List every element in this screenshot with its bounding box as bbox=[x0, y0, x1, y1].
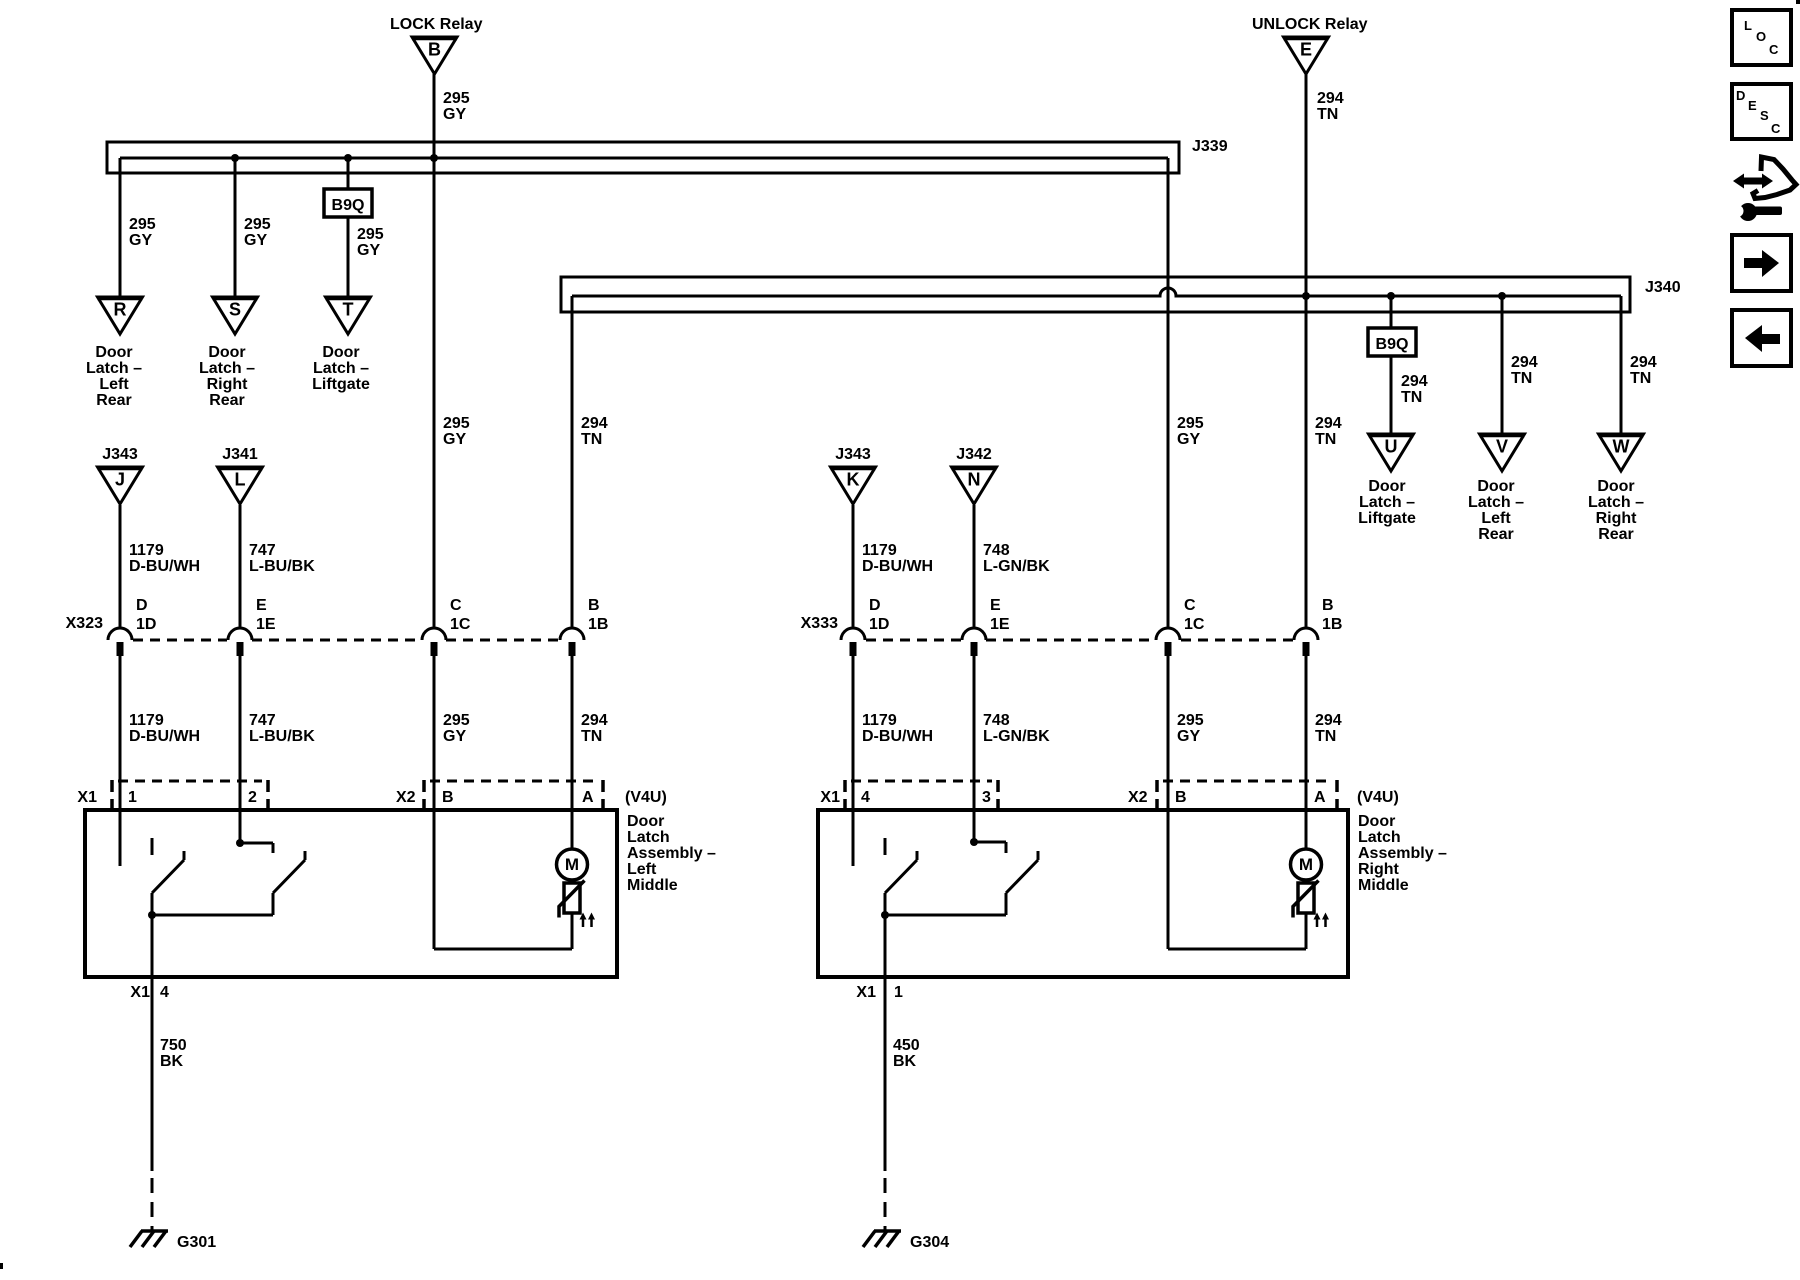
svg-text:Rear: Rear bbox=[96, 392, 132, 409]
svg-text:1D: 1D bbox=[869, 616, 889, 633]
svg-text:X323: X323 bbox=[66, 615, 103, 632]
svg-text:X2: X2 bbox=[1128, 789, 1148, 806]
svg-text:B: B bbox=[1175, 789, 1187, 806]
svg-text:A: A bbox=[582, 789, 594, 806]
svg-text:D: D bbox=[136, 597, 148, 614]
svg-text:U: U bbox=[1385, 437, 1398, 457]
svg-text:Right: Right bbox=[207, 376, 249, 393]
svg-text:Assembly –: Assembly – bbox=[627, 845, 716, 862]
svg-text:B: B bbox=[428, 40, 441, 60]
svg-text:GY: GY bbox=[244, 232, 267, 249]
svg-text:C: C bbox=[1184, 597, 1196, 614]
svg-text:294: 294 bbox=[1401, 373, 1428, 390]
svg-text:X1: X1 bbox=[820, 789, 840, 806]
svg-text:Door: Door bbox=[322, 344, 359, 361]
svg-text:Latch: Latch bbox=[627, 829, 670, 846]
svg-text:M: M bbox=[565, 855, 579, 874]
svg-text:GY: GY bbox=[443, 106, 466, 123]
svg-text:TN: TN bbox=[1317, 106, 1338, 123]
svg-text:LOCK Relay: LOCK Relay bbox=[390, 16, 483, 33]
svg-text:Door: Door bbox=[208, 344, 245, 361]
svg-text:1D: 1D bbox=[136, 616, 156, 633]
svg-text:L-BU/BK: L-BU/BK bbox=[249, 558, 315, 575]
svg-text:3: 3 bbox=[982, 789, 991, 806]
svg-text:V: V bbox=[1496, 437, 1508, 457]
svg-text:Rear: Rear bbox=[1598, 526, 1634, 543]
svg-text:295: 295 bbox=[129, 216, 156, 233]
svg-text:Left: Left bbox=[627, 861, 657, 878]
svg-text:L-GN/BK: L-GN/BK bbox=[983, 558, 1050, 575]
svg-text:TN: TN bbox=[1315, 728, 1336, 745]
svg-text:Latch –: Latch – bbox=[86, 360, 142, 377]
svg-text:(V4U): (V4U) bbox=[1357, 789, 1399, 806]
svg-text:294: 294 bbox=[1630, 354, 1657, 371]
svg-text:J: J bbox=[115, 470, 125, 490]
svg-text:295: 295 bbox=[443, 90, 470, 107]
svg-text:Middle: Middle bbox=[1358, 877, 1409, 894]
svg-text:294: 294 bbox=[1317, 90, 1344, 107]
svg-text:B9Q: B9Q bbox=[332, 197, 365, 214]
svg-text:747: 747 bbox=[249, 542, 276, 559]
svg-text:Door: Door bbox=[1477, 478, 1514, 495]
svg-text:Left: Left bbox=[1481, 510, 1511, 527]
svg-text:X333: X333 bbox=[801, 615, 838, 632]
svg-text:GY: GY bbox=[1177, 431, 1200, 448]
svg-text:S: S bbox=[229, 300, 241, 320]
svg-text:D-BU/WH: D-BU/WH bbox=[129, 558, 200, 575]
svg-text:E: E bbox=[1748, 98, 1757, 113]
svg-text:1E: 1E bbox=[256, 616, 276, 633]
svg-text:Latch –: Latch – bbox=[1588, 494, 1644, 511]
svg-text:Door: Door bbox=[1368, 478, 1405, 495]
svg-text:Door: Door bbox=[95, 344, 132, 361]
svg-text:748: 748 bbox=[983, 712, 1010, 729]
svg-text:M: M bbox=[1299, 855, 1313, 874]
svg-text:D-BU/WH: D-BU/WH bbox=[862, 558, 933, 575]
svg-text:748: 748 bbox=[983, 542, 1010, 559]
svg-text:295: 295 bbox=[244, 216, 271, 233]
svg-text:B: B bbox=[588, 597, 600, 614]
svg-text:C: C bbox=[1771, 121, 1781, 136]
svg-text:C: C bbox=[450, 597, 462, 614]
svg-text:295: 295 bbox=[443, 712, 470, 729]
svg-text:294: 294 bbox=[581, 415, 608, 432]
svg-text:1E: 1E bbox=[990, 616, 1010, 633]
svg-text:W: W bbox=[1613, 437, 1630, 457]
svg-text:A: A bbox=[1314, 789, 1326, 806]
svg-text:1C: 1C bbox=[1184, 616, 1205, 633]
svg-text:GY: GY bbox=[443, 728, 466, 745]
svg-text:L: L bbox=[235, 470, 246, 490]
svg-text:Latch –: Latch – bbox=[1468, 494, 1524, 511]
svg-text:L: L bbox=[1744, 18, 1752, 33]
svg-text:S: S bbox=[1760, 108, 1769, 123]
svg-text:1179: 1179 bbox=[862, 542, 897, 559]
svg-text:2: 2 bbox=[248, 789, 257, 806]
svg-text:Middle: Middle bbox=[627, 877, 678, 894]
svg-text:B: B bbox=[442, 789, 454, 806]
svg-text:Latch –: Latch – bbox=[1359, 494, 1415, 511]
svg-text:295: 295 bbox=[1177, 712, 1204, 729]
svg-text:GY: GY bbox=[1177, 728, 1200, 745]
svg-text:Right: Right bbox=[1358, 861, 1400, 878]
svg-text:1: 1 bbox=[128, 789, 137, 806]
svg-text:G301: G301 bbox=[177, 1234, 216, 1251]
svg-text:D-BU/WH: D-BU/WH bbox=[129, 728, 200, 745]
svg-text:Door: Door bbox=[1358, 813, 1395, 830]
svg-text:X2: X2 bbox=[396, 789, 416, 806]
svg-text:Rear: Rear bbox=[1478, 526, 1514, 543]
svg-text:Latch –: Latch – bbox=[199, 360, 255, 377]
svg-text:Door: Door bbox=[1597, 478, 1634, 495]
svg-text:X1: X1 bbox=[130, 984, 150, 1001]
svg-text:Liftgate: Liftgate bbox=[312, 376, 370, 393]
svg-text:TN: TN bbox=[1630, 370, 1651, 387]
svg-text:T: T bbox=[343, 300, 354, 320]
svg-text:GY: GY bbox=[357, 242, 380, 259]
svg-text:D: D bbox=[869, 597, 881, 614]
svg-text:X1: X1 bbox=[856, 984, 876, 1001]
svg-text:B: B bbox=[1322, 597, 1334, 614]
svg-text:294: 294 bbox=[1315, 415, 1342, 432]
svg-text:1B: 1B bbox=[588, 616, 608, 633]
svg-text:295: 295 bbox=[1177, 415, 1204, 432]
svg-text:1179: 1179 bbox=[129, 712, 164, 729]
svg-text:Latch: Latch bbox=[1358, 829, 1401, 846]
svg-text:Latch –: Latch – bbox=[313, 360, 369, 377]
svg-text:TN: TN bbox=[581, 728, 602, 745]
svg-text:750: 750 bbox=[160, 1037, 187, 1054]
svg-text:E: E bbox=[256, 597, 267, 614]
svg-text:E: E bbox=[1300, 40, 1312, 60]
svg-text:L-BU/BK: L-BU/BK bbox=[249, 728, 315, 745]
svg-text:450: 450 bbox=[893, 1037, 920, 1054]
svg-text:TN: TN bbox=[1315, 431, 1336, 448]
svg-text:C: C bbox=[1769, 42, 1779, 57]
svg-text:294: 294 bbox=[1511, 354, 1538, 371]
svg-text:UNLOCK Relay: UNLOCK Relay bbox=[1252, 16, 1368, 33]
svg-text:1179: 1179 bbox=[862, 712, 897, 729]
svg-text:Assembly –: Assembly – bbox=[1358, 845, 1447, 862]
svg-text:295: 295 bbox=[443, 415, 470, 432]
svg-text:(V4U): (V4U) bbox=[625, 789, 667, 806]
svg-text:Rear: Rear bbox=[209, 392, 245, 409]
svg-text:E: E bbox=[990, 597, 1001, 614]
svg-text:295: 295 bbox=[357, 226, 384, 243]
svg-text:BK: BK bbox=[893, 1053, 917, 1070]
svg-text:TN: TN bbox=[1511, 370, 1532, 387]
svg-text:B9Q: B9Q bbox=[1376, 336, 1409, 353]
svg-text:1: 1 bbox=[894, 984, 903, 1001]
svg-text:J341: J341 bbox=[222, 446, 258, 463]
svg-text:Door: Door bbox=[627, 813, 664, 830]
svg-text:X1: X1 bbox=[77, 789, 97, 806]
svg-text:TN: TN bbox=[581, 431, 602, 448]
svg-text:1179: 1179 bbox=[129, 542, 164, 559]
svg-text:J342: J342 bbox=[956, 446, 992, 463]
svg-text:BK: BK bbox=[160, 1053, 184, 1070]
svg-text:D: D bbox=[1736, 88, 1745, 103]
svg-text:R: R bbox=[114, 300, 127, 320]
svg-text:4: 4 bbox=[160, 984, 169, 1001]
svg-text:N: N bbox=[968, 470, 981, 490]
svg-text:J343: J343 bbox=[102, 446, 138, 463]
svg-text:747: 747 bbox=[249, 712, 276, 729]
svg-text:TN: TN bbox=[1401, 389, 1422, 406]
svg-text:J343: J343 bbox=[835, 446, 871, 463]
svg-text:L-GN/BK: L-GN/BK bbox=[983, 728, 1050, 745]
svg-text:294: 294 bbox=[581, 712, 608, 729]
svg-text:294: 294 bbox=[1315, 712, 1342, 729]
svg-text:J339: J339 bbox=[1192, 138, 1228, 155]
svg-text:G304: G304 bbox=[910, 1234, 949, 1251]
svg-text:1C: 1C bbox=[450, 616, 471, 633]
svg-text:O: O bbox=[1756, 29, 1766, 44]
svg-text:J340: J340 bbox=[1645, 279, 1681, 296]
svg-text:K: K bbox=[847, 470, 860, 490]
svg-text:Left: Left bbox=[99, 376, 129, 393]
svg-text:4: 4 bbox=[861, 789, 870, 806]
svg-text:D-BU/WH: D-BU/WH bbox=[862, 728, 933, 745]
svg-text:1B: 1B bbox=[1322, 616, 1342, 633]
svg-text:GY: GY bbox=[443, 431, 466, 448]
svg-text:Right: Right bbox=[1596, 510, 1638, 527]
svg-text:Liftgate: Liftgate bbox=[1358, 510, 1416, 527]
svg-text:GY: GY bbox=[129, 232, 152, 249]
